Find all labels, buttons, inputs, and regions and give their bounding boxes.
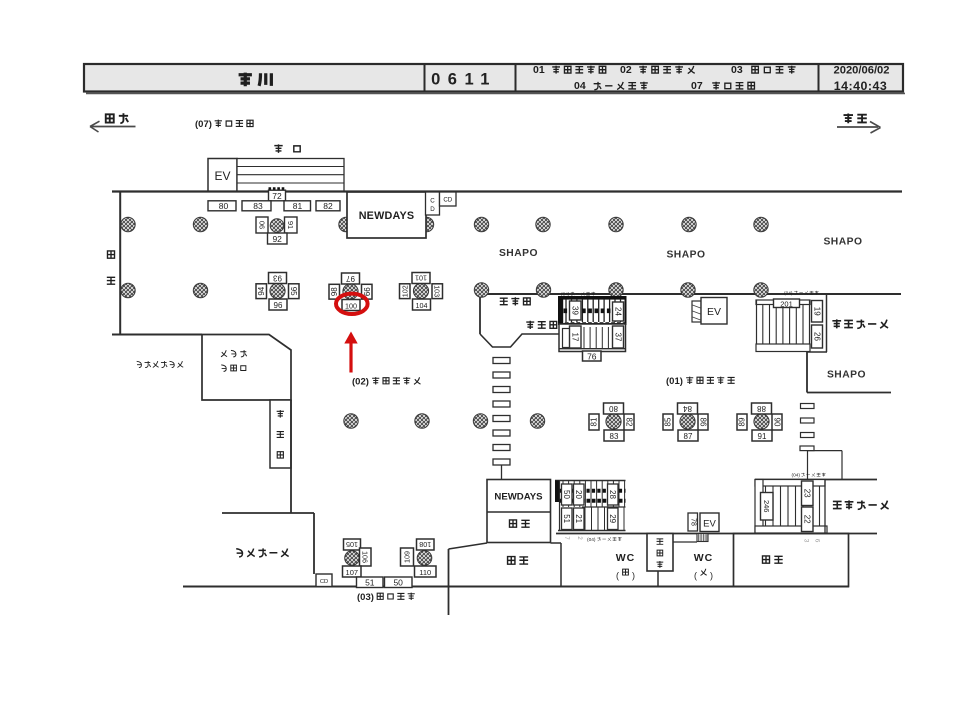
svg-text:83: 83 xyxy=(253,201,263,211)
svg-text:NEWDAYS: NEWDAYS xyxy=(359,210,415,222)
label (03)南口階段 xyxy=(357,592,415,603)
wall below rapid stairs xyxy=(807,352,891,393)
multifunction toilet box 多機能 xyxy=(647,534,697,572)
svg-text:84: 84 xyxy=(683,404,692,413)
NEWDAYS store (south) xyxy=(487,480,551,543)
main gate stairs upper block xyxy=(559,297,626,324)
local platform stairs xyxy=(755,480,827,534)
pillar row2 c6 on wall xyxy=(474,283,488,297)
svg-text:94: 94 xyxy=(257,286,266,295)
svg-text:3: 3 xyxy=(803,539,810,543)
svg-text:17: 17 xyxy=(571,333,580,342)
svg-text:103: 103 xyxy=(433,285,442,297)
svg-text:EV: EV xyxy=(707,306,721,318)
camera box 78 xyxy=(688,513,698,531)
svg-text:82: 82 xyxy=(323,201,333,211)
svg-text:NEWDAYS: NEWDAYS xyxy=(494,492,543,503)
label SHAPO 4 xyxy=(827,370,866,381)
svg-text:SHAPO: SHAPO xyxy=(666,250,705,261)
camera cluster 101-104 xyxy=(400,273,443,311)
camera box 17 xyxy=(570,326,582,348)
svg-text:23: 23 xyxy=(803,489,812,498)
pillar row1 c10 xyxy=(754,217,768,231)
svg-text:97: 97 xyxy=(346,274,355,283)
svg-text:03: 03 xyxy=(731,64,743,76)
svg-text:(01): (01) xyxy=(666,376,683,387)
camera list line 1: 01 本屋改札内 02 本屋改札外 03 南口階段 xyxy=(533,64,796,76)
svg-text:(: ( xyxy=(694,571,697,581)
camera box 28 xyxy=(608,484,619,505)
svg-text:86: 86 xyxy=(699,418,708,427)
big store room 店舗 (south-west) xyxy=(508,557,529,565)
south stairs tiny label xyxy=(563,536,622,542)
pillar row1 c4 (behind NEWDAYS) xyxy=(339,217,353,231)
svg-text:109: 109 xyxy=(403,551,412,563)
camera box 23 xyxy=(802,481,814,506)
station name 市川 xyxy=(239,73,272,87)
svg-text:): ) xyxy=(710,571,713,581)
C D booth xyxy=(426,192,440,215)
svg-text:SHAPO: SHAPO xyxy=(823,237,862,248)
svg-text:95: 95 xyxy=(289,287,298,296)
camera box 51 (south exit) xyxy=(357,577,384,588)
kaisatsu room left wall xyxy=(479,294,481,334)
camera cluster 80-83 xyxy=(589,403,634,441)
camera box 39 xyxy=(570,301,582,320)
direction west 東京 with arrow xyxy=(90,113,136,132)
rapid stairs tiny label (04)ホーム階段 xyxy=(784,291,819,297)
svg-text:(02): (02) xyxy=(352,377,369,388)
svg-text:(07): (07) xyxy=(195,119,212,130)
camera cluster 90-92 xyxy=(256,217,297,244)
svg-text:104: 104 xyxy=(416,301,428,310)
north EV box xyxy=(208,159,237,192)
camera box 19 xyxy=(812,301,823,323)
label SHAPO 2 xyxy=(666,250,705,261)
svg-text:22: 22 xyxy=(803,515,812,524)
camera box 50 xyxy=(562,484,573,505)
camera box 76 xyxy=(583,351,602,361)
svg-text:D: D xyxy=(430,206,435,213)
svg-text:14:40:43: 14:40:43 xyxy=(834,79,888,93)
wall above local stairs xyxy=(755,479,877,481)
pillar row1 c5 (behind NEWDAYS) xyxy=(419,217,433,231)
svg-text:93: 93 xyxy=(273,274,282,283)
ghost numbers below local stairs xyxy=(803,539,821,543)
kaisatsu funnel wall xyxy=(480,334,559,347)
camera cluster 93-96 xyxy=(256,273,299,311)
vertical store label 店舗 (left wall) xyxy=(107,251,115,284)
pillar row1 c1 xyxy=(121,217,135,231)
dashed strip above box 72 xyxy=(269,187,286,190)
svg-text:SHAPO: SHAPO xyxy=(827,370,866,381)
camera box 24 xyxy=(613,302,624,321)
camera box 80 xyxy=(208,201,236,211)
svg-text:26: 26 xyxy=(813,332,822,341)
top wall xyxy=(112,190,902,192)
gate line wall xyxy=(480,293,901,295)
camera cluster 97-100 xyxy=(329,273,372,311)
pillar row1 c9 xyxy=(682,217,696,231)
svg-text:98: 98 xyxy=(330,287,339,296)
camera cluster 88-91 xyxy=(737,403,782,441)
svg-text:89: 89 xyxy=(738,417,747,426)
svg-text:92: 92 xyxy=(272,234,282,244)
left wall xyxy=(119,192,121,335)
svg-text:2020/06/02: 2020/06/02 xyxy=(834,65,890,77)
main gate stairs lower block xyxy=(559,324,626,352)
svg-text:07: 07 xyxy=(691,80,703,92)
pillar row1 c7 xyxy=(536,217,550,231)
svg-text:(04): (04) xyxy=(587,537,596,543)
svg-text:105: 105 xyxy=(346,540,358,549)
NEWDAYS store (north) xyxy=(347,192,426,238)
svg-text:90: 90 xyxy=(773,418,782,427)
camera box 20 xyxy=(574,484,585,505)
svg-text:51: 51 xyxy=(365,578,375,588)
wall below multifunction xyxy=(657,571,659,587)
station code 0611 xyxy=(431,71,497,89)
store box south-east 店舗 xyxy=(734,534,849,587)
small hatched stairs below EV xyxy=(697,534,708,542)
svg-text:101: 101 xyxy=(415,274,427,283)
svg-text:50: 50 xyxy=(562,490,571,499)
camera list line 2: 04 ホーム階段 07 北口広場 xyxy=(574,80,754,92)
camera box 83 xyxy=(242,201,271,211)
dashed path ladder (center) xyxy=(493,358,510,480)
svg-text:21: 21 xyxy=(574,514,583,523)
pillar row1 c8 xyxy=(609,217,623,231)
svg-text:81: 81 xyxy=(293,201,303,211)
svg-text:(: ( xyxy=(616,571,619,581)
label SHAPO 3 xyxy=(823,237,862,248)
svg-text:91: 91 xyxy=(758,432,767,441)
label SHAPO 1 xyxy=(499,248,538,259)
svg-text:96: 96 xyxy=(274,301,283,310)
camera box 37 xyxy=(613,326,624,348)
svg-text:02: 02 xyxy=(620,64,632,76)
svg-text:246: 246 xyxy=(762,500,771,513)
label (02)本屋改札外 xyxy=(352,377,420,388)
label 緩行ホーム xyxy=(833,500,889,509)
pillar row2 c1 xyxy=(121,283,135,297)
dashed path ladder (right) xyxy=(800,404,842,480)
svg-text:85: 85 xyxy=(664,417,673,426)
south stairs (50/20/28/51/21/29) xyxy=(555,481,626,531)
escalator box xyxy=(692,301,701,322)
svg-text:81: 81 xyxy=(590,417,599,426)
svg-text:102: 102 xyxy=(400,285,409,297)
rapid platform stairs xyxy=(756,295,827,352)
header bar xyxy=(84,64,905,93)
camera box 51 xyxy=(562,508,573,530)
pillar row2 c7 on wall xyxy=(536,283,550,297)
red circle highlight on camera 100 xyxy=(336,294,368,314)
pillar row2 c9 on wall xyxy=(681,283,695,297)
pillar row3 c7 xyxy=(530,414,544,428)
camera cluster 105-107 xyxy=(343,539,372,577)
wall around beckers xyxy=(222,513,314,574)
svg-text:EV: EV xyxy=(214,169,230,183)
svg-text:82: 82 xyxy=(625,418,634,427)
pillar row2 c2 xyxy=(193,283,207,297)
svg-text:100: 100 xyxy=(345,301,357,310)
CD box (south) xyxy=(316,574,332,587)
svg-text:01: 01 xyxy=(533,64,545,76)
camera cluster 84-87 xyxy=(663,403,708,441)
svg-text:110: 110 xyxy=(419,568,431,577)
bottom wall xyxy=(183,586,849,588)
label 精算機 xyxy=(526,321,556,329)
svg-text:WC: WC xyxy=(694,552,714,564)
camera box 72 xyxy=(269,190,286,201)
svg-text:WC: WC xyxy=(616,552,636,564)
camera box 26 xyxy=(812,325,823,348)
EV box (paid area) xyxy=(701,298,727,325)
date 2020/06/02 xyxy=(834,65,890,77)
CD booth xyxy=(440,192,457,206)
pillar row3 c3 xyxy=(344,414,358,428)
camera box 50 (south exit) xyxy=(385,577,413,588)
label 快速ホーム xyxy=(832,319,888,328)
svg-text:(03): (03) xyxy=(357,592,374,603)
svg-text:107: 107 xyxy=(346,568,359,577)
svg-text:91: 91 xyxy=(286,221,295,229)
svg-text:78: 78 xyxy=(689,518,696,526)
label WC(男) xyxy=(616,552,636,581)
pillar row2 c10 on wall xyxy=(754,283,768,297)
svg-text:88: 88 xyxy=(757,404,766,413)
pillar row3 c6 xyxy=(473,414,487,428)
pillar row1 c2 xyxy=(193,217,207,231)
svg-text:SHAPO: SHAPO xyxy=(499,248,538,259)
camera box 21 xyxy=(574,508,585,530)
north stairs xyxy=(237,159,344,192)
svg-text:90: 90 xyxy=(258,221,267,229)
svg-text:19: 19 xyxy=(813,307,822,316)
svg-text:83: 83 xyxy=(610,432,619,441)
direction east 千葉 with arrow xyxy=(837,114,881,134)
label 改札室 xyxy=(500,297,530,305)
svg-text:20: 20 xyxy=(574,490,583,499)
svg-text:C: C xyxy=(430,198,435,205)
svg-text:80: 80 xyxy=(609,404,618,413)
midori-no-madoguchi box xyxy=(202,335,291,401)
svg-text:37: 37 xyxy=(614,333,623,342)
label 北口 xyxy=(274,144,300,153)
svg-text:51: 51 xyxy=(562,514,571,523)
store wall left of south stairs xyxy=(449,543,562,615)
svg-text:(04): (04) xyxy=(792,473,801,479)
svg-text:CD: CD xyxy=(443,197,452,204)
svg-text:EV: EV xyxy=(703,519,716,530)
camera box 29 xyxy=(608,508,619,530)
svg-text:0611: 0611 xyxy=(431,71,497,89)
label (07)北口広場 xyxy=(195,119,253,130)
ticket machine room 券売機 xyxy=(270,400,291,513)
camera box 81 xyxy=(284,201,311,211)
label (01)本屋改札内 xyxy=(666,376,735,387)
svg-text:76: 76 xyxy=(587,351,597,361)
camera box 82 xyxy=(316,201,340,211)
camera box 22 xyxy=(802,507,814,532)
red arrow xyxy=(344,332,357,373)
svg-text:6: 6 xyxy=(814,539,821,543)
label WC(女) xyxy=(694,552,714,581)
label びゅうプラザ xyxy=(137,361,184,367)
south concourse wall xyxy=(556,533,877,535)
svg-text:): ) xyxy=(632,571,635,581)
time 14:40:43 xyxy=(834,79,888,93)
svg-text:108: 108 xyxy=(419,540,431,549)
pillar row2 c8 on wall xyxy=(609,283,623,297)
svg-text:39: 39 xyxy=(571,306,580,315)
EV box (south) xyxy=(700,513,719,532)
svg-text:50: 50 xyxy=(393,578,403,588)
camera cluster 108-110 xyxy=(401,539,437,577)
camera box 246 xyxy=(761,493,774,521)
pillar row3 c4 xyxy=(415,414,429,428)
left lip wall xyxy=(112,334,202,336)
svg-text:24: 24 xyxy=(614,307,623,316)
svg-text:106: 106 xyxy=(361,551,370,563)
svg-text:87: 87 xyxy=(684,432,693,441)
svg-text:CD: CD xyxy=(320,579,328,585)
platform stairs top tiny label xyxy=(561,292,595,298)
svg-text:201: 201 xyxy=(780,299,793,308)
svg-text:72: 72 xyxy=(272,191,282,201)
svg-text:(04): (04) xyxy=(784,291,793,297)
label ベッカーズ xyxy=(236,548,288,556)
svg-text:28: 28 xyxy=(608,490,617,499)
local stairs tiny label (04)ホーム階段 xyxy=(792,473,826,479)
pillar row1 c6 xyxy=(474,217,488,231)
svg-text:29: 29 xyxy=(608,514,617,523)
svg-text:80: 80 xyxy=(219,201,229,211)
svg-text:04: 04 xyxy=(574,80,586,92)
